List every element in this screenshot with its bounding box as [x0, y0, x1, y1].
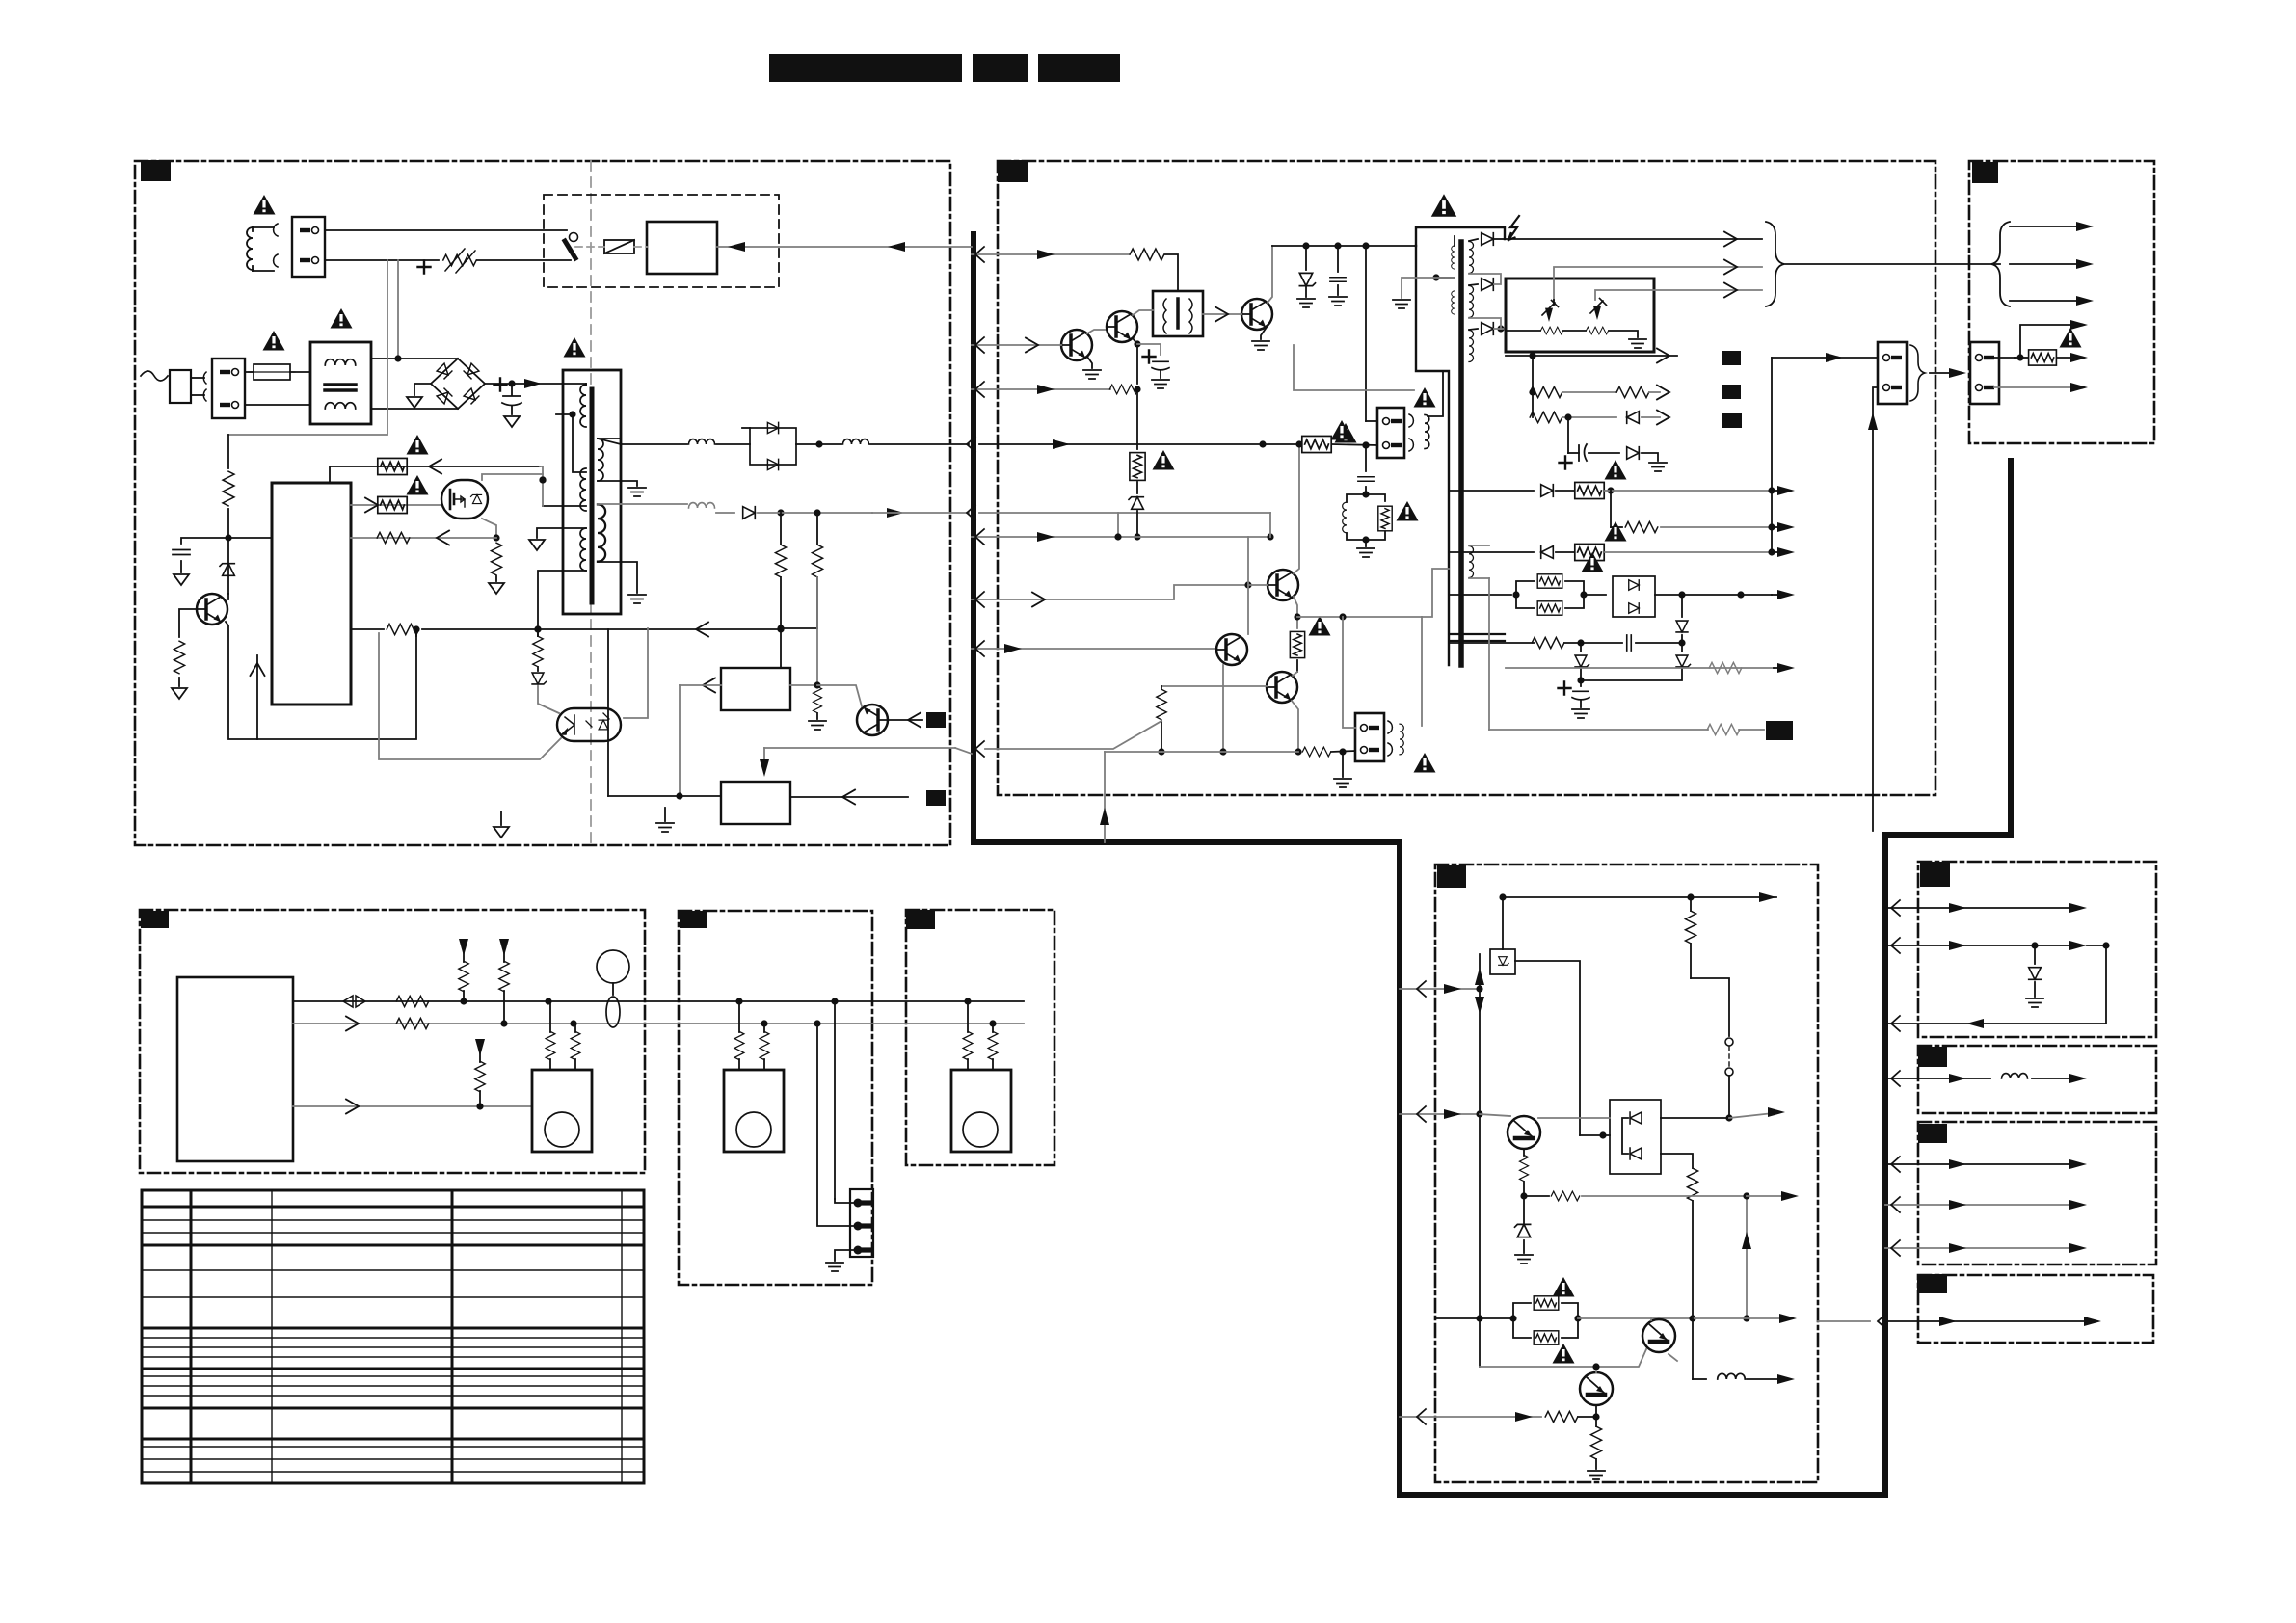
title redaction bar 3 [1038, 54, 1120, 82]
dual diode pack D41 [1610, 1100, 1661, 1174]
winding riser [1421, 617, 1423, 726]
Q12 emitter down [1133, 338, 1137, 384]
T1 third winding [580, 528, 586, 571]
rail 1 (heater/audio) [293, 1000, 1024, 1002]
bus hop line y=622 [972, 599, 998, 600]
connector (mains input) [212, 359, 245, 418]
filter inductor L2 [689, 439, 715, 444]
clamp diode D51 [2034, 945, 2036, 964]
vertical node line [1479, 954, 1481, 1367]
gather brace [1910, 345, 1925, 401]
cap C13 [1358, 477, 1374, 482]
transistor Q16 [1267, 672, 1297, 703]
base resistor R45 [1545, 1411, 1578, 1422]
connector feeds [817, 1024, 854, 1226]
vertical tee x=631 [607, 629, 609, 796]
transistor Q41 [1508, 1116, 1540, 1149]
interconnect bus (thick wiring-loom line) [974, 234, 2011, 1495]
pin2 feed from below [1873, 387, 1878, 831]
Q41 collector row to pack [1538, 1117, 1610, 1119]
section label (redacted) strip 4 [1917, 1274, 1947, 1293]
pin2 long feed line [1294, 345, 1414, 390]
voltage labels redacted [1722, 351, 1741, 365]
linearity coil L11 [1425, 414, 1429, 448]
label redacted heater [1766, 721, 1793, 740]
pull resistor Rp1 [459, 939, 468, 956]
H1 return line [1885, 945, 2106, 1024]
rectifier D22 [1482, 279, 1494, 291]
mains switch contact [570, 233, 578, 242]
row C [1530, 412, 1562, 422]
speaker SP3 [951, 1070, 1011, 1152]
T1 secondary 1 [598, 439, 603, 481]
rail cap C12 [1337, 246, 1339, 272]
T1 aux bottom to snubber [543, 505, 586, 507]
fusible resistor R16 [1290, 631, 1304, 657]
gnd A bottom 1 [500, 811, 502, 825]
bus hop line y=358 [972, 344, 998, 346]
wire degauss top to relay switch [325, 229, 567, 231]
warning triangle [407, 435, 429, 455]
opto feed resistor [534, 625, 541, 632]
Q42 emitter to inductor out [1692, 1318, 1694, 1379]
dual diode D28 [1613, 576, 1655, 617]
rail zener ZD12 [1305, 246, 1307, 270]
MOSFET drain wire to T1 [482, 474, 543, 480]
yoke connector J13 [1878, 342, 1907, 404]
diode D24 [1627, 412, 1640, 424]
bus hop line y=404 [972, 388, 998, 390]
fuse F1 [254, 364, 290, 380]
CRT feed line [1784, 263, 2000, 265]
connector hooks [274, 224, 278, 267]
damping tank L12/R15 [1347, 494, 1366, 502]
fusible resistor R21 [1575, 482, 1604, 498]
warning triangles pair [1553, 1277, 1575, 1297]
chopper transformer T1 [563, 370, 621, 614]
FBT outline [1416, 227, 1505, 246]
MOSFET source down [482, 519, 496, 538]
section border: primary power supply (left block) [135, 161, 950, 845]
FBT warning [1431, 194, 1456, 217]
G bottom input [1400, 1416, 1541, 1418]
IC pin row 4 (feedback) to opto [351, 628, 384, 630]
Q11 collector to Q12 base [1087, 330, 1107, 333]
internal divider (hot/cold) gray dashed [590, 161, 592, 845]
diode D27 [1541, 546, 1554, 559]
input line 1 (to driver xfmr supply) [998, 253, 1129, 255]
row F (-supply) [1449, 551, 1534, 553]
warning triangle [1331, 420, 1353, 440]
speaker SP1 [532, 1070, 592, 1152]
twist marker circle [597, 950, 629, 983]
spur arrow right [1743, 1192, 1749, 1199]
diode D26 [1541, 485, 1554, 497]
warning triangle [1153, 450, 1175, 470]
EHT line to CRT [1505, 238, 1762, 240]
warning triangle [2060, 328, 2082, 348]
J12 winding [1400, 724, 1403, 755]
warning triangle chopper transformer [564, 337, 586, 358]
TB collector riser [1247, 537, 1249, 634]
G input 1 from bus [1400, 988, 1480, 990]
fusible resistor R13 [1130, 453, 1145, 481]
feedback from left block [975, 741, 984, 757]
warning triangle fuse [263, 331, 285, 351]
Q42 base line [1480, 1349, 1646, 1367]
bridge minus to chassis gnd [414, 384, 431, 395]
control IC U1 [272, 483, 351, 705]
input line 2 (h-drive in) [998, 344, 1061, 346]
zener ZD11 [1129, 497, 1143, 510]
twist marker ellipse [606, 997, 620, 1027]
posistor (PTC) R [443, 254, 476, 265]
divider Rb to reg1 right [790, 577, 817, 685]
zener D31 [1681, 643, 1683, 652]
rail resistor R41 [1690, 897, 1692, 911]
IC pin row 3 (current sense) [351, 537, 496, 539]
vertical from posistor node to bridge input [397, 260, 399, 359]
warning triangle degauss [254, 195, 276, 215]
fusible resistor R gate1 [378, 458, 407, 474]
line filter / mains transformer [310, 342, 371, 424]
control IC U2 [177, 977, 293, 1161]
screen pot resistor [1586, 327, 1608, 334]
feedback line row y=653 [422, 628, 781, 630]
regulator block 1 [721, 668, 790, 710]
H1 line 2 [1885, 945, 2072, 946]
transistor Q15 [1216, 634, 1247, 665]
spur vertical to output rail [1746, 1196, 1748, 1318]
SP1 leads [549, 1059, 551, 1070]
gnd A bottom 2 (earth) [664, 808, 666, 821]
Q1 emitter to rail [226, 622, 416, 739]
section label (redacted) right block [998, 160, 1028, 182]
G top rail [1503, 896, 1776, 898]
snubber row: cap + diode to gnd [1567, 417, 1569, 453]
divider resistor Rb [812, 545, 822, 577]
resistor R12 [1109, 385, 1137, 394]
input line 3 (pulse) [998, 388, 1110, 390]
zener to opto [537, 667, 539, 671]
section label (redacted) bottom-right box [1437, 865, 1466, 888]
yoke connector J14 [1970, 342, 1999, 404]
section label (redacted) strip 3 [1918, 1124, 1947, 1143]
startup line down left side [227, 435, 229, 468]
branch to FBT [1422, 569, 1449, 617]
H3 line 3 [1885, 1247, 2072, 1249]
fusible resistor R14 [1302, 436, 1331, 452]
wire mains bottom [245, 404, 310, 406]
relay body block [647, 222, 717, 274]
section border: output strip 1 [1918, 862, 2156, 1037]
rail 2 dots [570, 1020, 576, 1026]
Q13 collector to top rail [1268, 246, 1272, 303]
snubber chain below connector [1365, 445, 1367, 471]
wire degauss bottom / posistor line [325, 259, 439, 261]
warning triangle [1309, 616, 1331, 636]
transistor QA [857, 705, 888, 735]
mains plug [170, 370, 191, 403]
row A (video supply) [1506, 355, 1677, 357]
headphone connector J21 [850, 1189, 873, 1257]
opto transistor return [379, 633, 561, 759]
startup transistor Q1 [197, 594, 227, 625]
IC pin row 2 (gate drive) [351, 504, 441, 506]
emitter resistor R17 [1302, 747, 1330, 757]
Q16 base resistor [1161, 685, 1267, 687]
diode D6 [743, 507, 756, 519]
section label (redacted) right speaker box [906, 910, 935, 929]
relay coil [604, 240, 634, 253]
EHT flash symbol [1508, 216, 1519, 240]
screen pot wiper [1590, 299, 1607, 314]
T2 out to Q13 base [1203, 313, 1241, 315]
wire rail to connector pin1 [1365, 246, 1367, 421]
Q15/Q16 emitter rail [1222, 665, 1224, 752]
cap C21 [1627, 635, 1632, 651]
resistor chain to switch [1691, 978, 1729, 1036]
relay dashed enclosure [544, 195, 779, 287]
FBT secondary W2 [1469, 286, 1474, 318]
fusible resistor R gate2 [378, 496, 407, 513]
section label (redacted) left block [141, 160, 171, 181]
primary tap to gnd [1432, 274, 1439, 280]
degauss coil L1 [247, 227, 253, 270]
focus pot wiper [1542, 301, 1559, 316]
B+ rail from T1 sec1 [598, 439, 687, 444]
warning triangle [1605, 460, 1627, 480]
feed to deflection connector [1772, 357, 1878, 359]
Q14 emitter node [1294, 597, 1297, 628]
G mid input from bus [1400, 1113, 1480, 1115]
source resistor [491, 543, 501, 575]
diode to -V D29 [1681, 595, 1683, 617]
transistor Q12 [1107, 311, 1137, 342]
driver transformer T2 [1153, 291, 1203, 336]
pass-through to transistor [1480, 1114, 1510, 1116]
output inductor L41 [1718, 1373, 1746, 1379]
line 3 (mute) [293, 1105, 532, 1107]
heater row J [1488, 578, 1490, 730]
fanout brace in CRT box [1991, 222, 2010, 306]
row B [1530, 386, 1562, 397]
elec cap C22 + [1580, 680, 1582, 686]
FBT core [1458, 242, 1464, 665]
row E [1610, 491, 1612, 527]
pack lower out to resistor [1661, 1154, 1693, 1168]
fusible resistor R22 [1575, 544, 1604, 560]
base spur resistor [1524, 1195, 1549, 1197]
T1 primary winding [580, 385, 586, 427]
divider resistor Ra [775, 545, 786, 577]
section border: deflection/secondary block (right big block) [998, 161, 1936, 795]
resistor R42 [1687, 1168, 1697, 1201]
T1 primary tap [556, 413, 573, 415]
regulator block 2 [721, 782, 790, 824]
wire to fuse [245, 371, 254, 373]
H3 line 1 [1885, 1163, 2072, 1165]
section border: control box (bottom left) [140, 910, 645, 1173]
section border: output strip 2 [1918, 1046, 2156, 1113]
zener D30 [1580, 643, 1582, 652]
resistor R11 [1130, 249, 1164, 260]
section border: output strip 3 [1918, 1122, 2156, 1264]
rail 2 [293, 1023, 1024, 1024]
row I (flyback pulse out) [1506, 667, 1774, 669]
bleeder resistor [813, 686, 821, 712]
pack out row [1661, 1117, 1729, 1119]
gather brace to CRT [1766, 222, 1784, 306]
H2 line [1885, 1078, 1990, 1079]
transistor Q43 [1580, 1372, 1613, 1405]
driver transistor Q13 [1241, 299, 1272, 330]
standby drive from bus [764, 747, 955, 749]
focus/screen divider block [1506, 279, 1654, 352]
CRT line 3 [2010, 300, 2082, 302]
fusible resistor R31 [2029, 350, 2057, 365]
Q12 collector to T2 [1133, 310, 1153, 315]
bridge rectifier D1-D4 [431, 359, 485, 409]
bus hop line y=673 [972, 648, 998, 650]
IC pin row 1 (to snubber) [330, 466, 540, 483]
transistor Q42 [1642, 1319, 1675, 1352]
QA base line with label [889, 719, 922, 721]
filter inductor L3 [843, 439, 869, 444]
IC supply wire [228, 537, 272, 539]
input line (v-drive 2) [998, 648, 1215, 650]
sec1 bottom to ground [598, 481, 637, 486]
bus to B drive line x=1146 [1104, 752, 1106, 842]
pair to Q42 rail [1578, 1317, 1693, 1319]
section border: output strip 4 [1918, 1275, 2153, 1343]
CRT line 1 [2010, 226, 2082, 227]
B+ rail crossing to right block [870, 443, 969, 445]
pull resistor Rp2 [499, 939, 509, 956]
H3 line 2 [1885, 1204, 2072, 1206]
pin1 node wiring [1297, 616, 1422, 618]
resistor R startup [223, 471, 234, 506]
warning triangle [1397, 501, 1419, 521]
title redaction bar 1 [769, 54, 962, 82]
fusible pair R23/R24 [1516, 581, 1535, 595]
warning triangle [1605, 521, 1627, 542]
emitter resistor R46 [1595, 1417, 1597, 1426]
fusible pair R43/R44 [1476, 1315, 1482, 1321]
speaker SP2 [724, 1070, 784, 1152]
wires filter to bridge [371, 358, 458, 359]
stub from y532 to y557 line [1117, 513, 1119, 537]
row G (vertical supply) [1449, 594, 1511, 596]
bias resistor Rp3 [475, 1039, 485, 1056]
input line (v-drive 1) [998, 585, 1248, 599]
zener block (SVR) [1490, 949, 1515, 974]
B+ branch resistors [777, 509, 784, 516]
bus hop line y=264 [972, 253, 998, 255]
rail 1 dots [545, 998, 551, 1004]
Q14 collector to B+ [1294, 444, 1299, 573]
FBT heater winding W4 [1469, 546, 1474, 578]
line y=557 tap [998, 536, 1270, 538]
Q13 emitter gnd [1261, 326, 1268, 339]
drive coupling connector J12 [1355, 713, 1384, 761]
title redaction bar 2 [973, 54, 1028, 82]
warning triangle [1582, 552, 1604, 572]
row D (+S supply) [1449, 490, 1534, 492]
zener D42 [1515, 1224, 1531, 1237]
section border: CRT outputs box (top right) [1969, 161, 2154, 443]
relay drive wire from bus [717, 246, 972, 248]
warning triangles connector [1414, 387, 1436, 408]
CRT line 2 [2010, 263, 2082, 265]
dual rectifier D5 (parallel pair) [750, 428, 796, 465]
parts table grid [142, 1189, 644, 1192]
diode D25 [1627, 447, 1640, 460]
T1 aux winding [580, 468, 586, 511]
section label (redacted) strip 1 [1920, 862, 1950, 887]
section label (redacted) strip 2 [1918, 1047, 1947, 1067]
reservoir cap C1 + [508, 380, 515, 386]
H-yoke connector J11 [1377, 408, 1404, 458]
connector (degauss plug) [292, 217, 325, 277]
zener ZD1 [220, 564, 234, 576]
focus line to CRT [1554, 267, 1762, 300]
FBT secondary W3 [1469, 331, 1474, 362]
Q41 emitter resistor [1523, 1149, 1525, 1156]
rectifier D23 [1482, 323, 1494, 335]
section border: vertical/east-west box (bottom right) [1435, 865, 1818, 1482]
reg2 output line with label [790, 796, 908, 798]
sec1 top out [597, 438, 599, 439]
focus pot resistor [1540, 327, 1562, 334]
Q11 emitter gnd [1087, 357, 1092, 368]
decoupling cap C11 + [1137, 344, 1161, 355]
warning triangle [1414, 753, 1436, 773]
warning triangle line filter [331, 308, 353, 329]
rectifier D21 [1482, 233, 1494, 246]
mains cord squiggle [141, 371, 168, 381]
row H (vertical -) [1449, 642, 1535, 644]
arrow to mating connector [1930, 372, 1962, 374]
screen line to CRT [1595, 290, 1762, 300]
section border: speaker box middle [679, 911, 872, 1285]
FBT secondary W1 [1469, 242, 1474, 274]
H1 line 1 [1885, 907, 2072, 909]
vcc cap C2 [181, 538, 228, 544]
branch up [2020, 325, 2072, 358]
transistor Q14 [1268, 570, 1298, 600]
section label (redacted) bottom-left box [141, 911, 169, 928]
reg2 input line from left [608, 795, 721, 797]
top rail y=255 [1272, 245, 1416, 247]
J14 out row 1 [1994, 357, 2015, 359]
warning triangle [407, 475, 429, 495]
section border: speaker box right [906, 910, 1055, 1165]
J14 out row 2 [1994, 386, 2072, 388]
bus hop line y=557 [972, 536, 998, 538]
FBT primary winding [1452, 246, 1455, 269]
B+ line into pin2 [1263, 443, 1300, 445]
vertical startup line x=402 [228, 260, 387, 435]
sec2 output rail [621, 503, 687, 505]
transistor Q11 [1061, 330, 1092, 360]
resistor R51 [396, 996, 429, 1006]
section label (redacted) middle speaker box [680, 911, 707, 928]
T1 secondary 2 [598, 504, 605, 561]
FBT bottom core end mark [1450, 633, 1505, 635]
optocoupler IC2 [557, 708, 621, 741]
service switch S1 [1725, 1038, 1733, 1046]
